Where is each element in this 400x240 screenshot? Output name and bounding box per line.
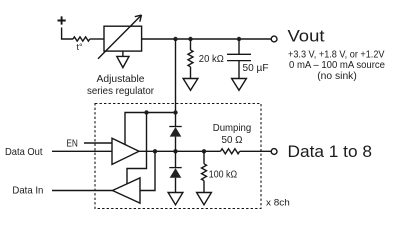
thermistor RT1 — [73, 37, 90, 41]
resistor R3 100 kOhm — [202, 164, 207, 181]
svg-text:x 8ch: x 8ch — [266, 198, 290, 208]
junction dot supply drop — [173, 37, 177, 41]
junction dot internal rail right — [173, 110, 177, 114]
ground under C1 — [232, 79, 247, 91]
terminal Data 1 to 8 — [271, 149, 277, 155]
capacitor C1 50 uF — [227, 53, 251, 55]
junction dot internal rail — [144, 110, 148, 114]
dashed block boundary (x 8ch buffer cell) — [95, 104, 261, 209]
ground under R3 — [197, 193, 212, 205]
svg-text:Data Out: Data Out — [5, 147, 43, 158]
wire EN input — [84, 142, 112, 144]
junction dot capacitor branch — [237, 37, 241, 41]
wire rail to diode D1 — [175, 113, 177, 127]
node V+ : plus terminal — [58, 16, 66, 24]
resistor R2 dumping 50 Ohm — [221, 149, 240, 154]
wire from plus terminal down and right — [62, 28, 73, 40]
wire R3 to ground — [203, 181, 205, 193]
svg-text:Adjustable: Adjustable — [97, 73, 145, 85]
wire internal supply rail — [125, 113, 176, 145]
diode D1 clamp to supply — [169, 126, 181, 128]
wire rail to resistor R1 — [190, 39, 192, 50]
wire D2 to ground — [175, 178, 177, 193]
svg-text:Data 1 to 8: Data 1 to 8 — [288, 142, 373, 161]
svg-text:50 µF: 50 µF — [243, 63, 269, 74]
wire R1 to ground — [190, 67, 192, 79]
wire C1 to ground — [238, 61, 240, 79]
ground under R1 — [183, 79, 198, 91]
svg-text:+3.3 V, +1.8 V, or +1.2V: +3.3 V, +1.8 V, or +1.2V — [288, 50, 385, 61]
wire supply to lower buffer — [127, 113, 147, 184]
svg-text:20 kΩ: 20 kΩ — [199, 54, 224, 65]
regulator U1 body — [104, 26, 142, 51]
wire Data In output — [52, 190, 113, 192]
wire data line to receiver U3 input — [140, 151, 155, 190]
wire D1 to data line — [175, 137, 177, 168]
junction dot 20k branch — [188, 37, 192, 41]
svg-text:(no sink): (no sink) — [317, 71, 357, 82]
ground under regulator — [122, 51, 124, 56]
svg-text:Vout: Vout — [288, 27, 325, 46]
junction dot receive branch — [153, 149, 157, 153]
wire Data Out input — [52, 150, 112, 152]
svg-text:EN: EN — [66, 138, 78, 149]
svg-text:0 mA – 100 mA source: 0 mA – 100 mA source — [289, 60, 385, 71]
regulator U1 adjust arrow — [98, 15, 142, 59]
terminal Vout — [271, 36, 277, 42]
wire supply drop to buffer block — [175, 39, 177, 113]
svg-text:100 kΩ: 100 kΩ — [209, 170, 238, 181]
wire R2 to terminal — [240, 150, 272, 152]
junction dot pulldown branch — [202, 149, 206, 153]
wire regulator output rail — [142, 38, 272, 40]
ground under D2 — [168, 193, 183, 205]
svg-text:50 Ω: 50 Ω — [222, 135, 243, 146]
wire thermistor to regulator — [90, 38, 104, 40]
wire data line from U2 to pad — [139, 150, 221, 152]
svg-text:t°: t° — [77, 42, 84, 52]
wire rail to capacitor C1 — [238, 39, 240, 54]
wire data line to resistor R3 — [203, 151, 205, 164]
svg-text:Data In: Data In — [12, 186, 43, 197]
resistor R1 20 kOhm — [188, 50, 193, 67]
buffer U2 output driver — [112, 138, 139, 164]
buffer U3 receiver — [113, 178, 141, 203]
svg-text:series regulator: series regulator — [87, 85, 154, 97]
diode D2 clamp to ground — [169, 167, 181, 169]
junction dot diode clamp — [173, 149, 177, 153]
svg-text:Dumping: Dumping — [213, 123, 252, 134]
